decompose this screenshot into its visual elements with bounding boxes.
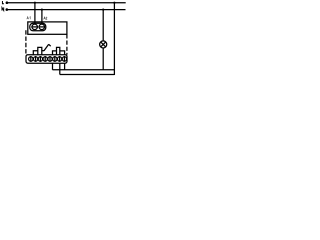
screw terminal 4 xyxy=(43,57,47,61)
wire terminal 6 down xyxy=(52,63,54,70)
internal conductor segment xyxy=(42,50,44,52)
junction dot A2 on N xyxy=(41,9,43,11)
junction dot A1 on L xyxy=(34,2,36,4)
wire lamp down xyxy=(102,48,104,70)
internal bridge 2 xyxy=(57,47,60,54)
device upper box xyxy=(28,22,67,34)
screw terminal 3 xyxy=(38,57,42,61)
internal conductor left stub xyxy=(33,51,38,55)
screw terminal 6 xyxy=(53,57,57,61)
junction dot lamp top on N xyxy=(102,9,104,11)
screw terminal A2 xyxy=(39,24,45,30)
internal conductor right end xyxy=(60,51,65,55)
wire L to A1 xyxy=(34,3,36,25)
screw terminal 1 xyxy=(29,57,33,61)
screw terminal 5 xyxy=(48,57,52,61)
internal conductor right stub xyxy=(53,51,57,55)
screw terminal 7 xyxy=(57,57,61,61)
screw terminal 2 xyxy=(33,57,37,61)
wire inner bottom xyxy=(53,69,115,71)
wire N down to lamp xyxy=(102,10,104,41)
slot A2 xyxy=(38,26,45,28)
wire L rail xyxy=(8,2,126,4)
dashed enclosure left xyxy=(25,30,27,55)
lower terminal strip xyxy=(26,55,67,64)
terminal dot N xyxy=(6,8,9,11)
contact arm xyxy=(44,44,49,51)
internal bridge 1 xyxy=(38,47,42,54)
node L label xyxy=(2,1,4,4)
junction dot lamp feed on L xyxy=(113,2,115,4)
wire terminal 8 down xyxy=(64,63,66,70)
wire N rail xyxy=(8,9,126,11)
dashed enclosure right xyxy=(66,34,68,54)
slot A1 xyxy=(31,26,38,28)
terminal dot L xyxy=(6,1,9,4)
wire terminal 7 down xyxy=(59,63,61,74)
node N label xyxy=(2,7,4,10)
wire right vertical from L xyxy=(113,3,115,75)
lamp E1 xyxy=(100,41,107,48)
screw terminal A1 xyxy=(32,24,38,30)
label A2 xyxy=(44,17,48,20)
lamp cross xyxy=(101,42,106,47)
wire outer bottom xyxy=(60,74,115,76)
wire N to A2 xyxy=(41,10,43,25)
label A1 xyxy=(27,17,30,20)
terminal strip A1 A2 xyxy=(30,23,46,31)
screw terminal 8 xyxy=(62,57,66,61)
contact arm barb xyxy=(49,44,51,46)
